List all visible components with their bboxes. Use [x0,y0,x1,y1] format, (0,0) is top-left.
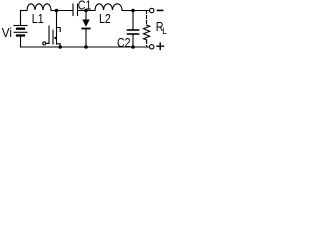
svg-text:Vi: Vi [2,26,12,41]
svg-text:C2: C2 [117,36,131,50]
svg-text:L2: L2 [99,12,111,26]
svg-text:L1: L1 [32,12,44,26]
svg-text:C1: C1 [78,0,92,13]
svg-text:L: L [162,25,167,36]
